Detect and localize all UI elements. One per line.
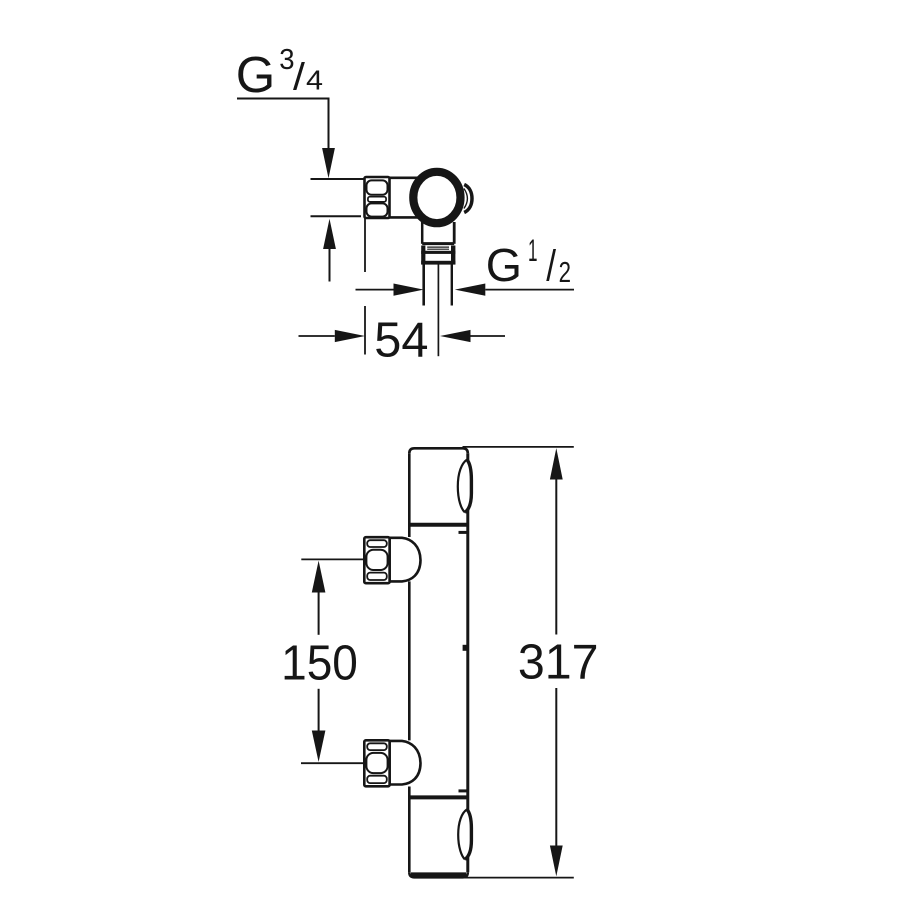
svg-text:G: G [486, 239, 522, 291]
svg-text:/: / [546, 241, 556, 290]
svg-text:54: 54 [374, 314, 428, 368]
svg-text:150: 150 [281, 636, 358, 691]
svg-text:4: 4 [306, 65, 323, 96]
svg-text:/: / [293, 56, 305, 99]
svg-text:317: 317 [518, 635, 599, 690]
svg-text:G: G [236, 46, 275, 103]
svg-text:1: 1 [528, 232, 538, 268]
svg-text:2: 2 [559, 256, 571, 288]
